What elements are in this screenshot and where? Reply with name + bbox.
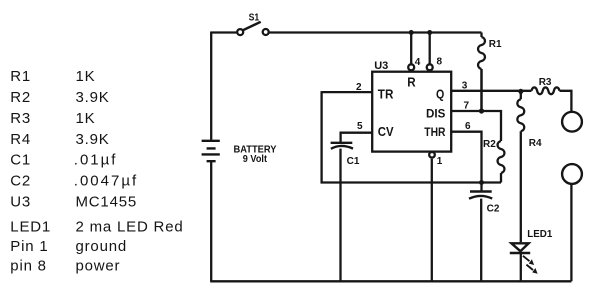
svg-text:LED1: LED1: [10, 219, 51, 236]
svg-text:MC1455: MC1455: [76, 194, 138, 211]
svg-text:3.9K: 3.9K: [76, 89, 110, 106]
wire pin8 to rail: [429, 33, 431, 65]
switch S1 arm: [242, 22, 261, 31]
wire DIS pin 7 to R2: [451, 111, 501, 141]
svg-text:S1: S1: [249, 12, 260, 23]
svg-text:3.9K: 3.9K: [76, 131, 110, 148]
svg-text:pin 8: pin 8: [10, 258, 47, 275]
svg-text:TR: TR: [378, 88, 394, 102]
svg-text:R2: R2: [10, 89, 31, 106]
svg-text:R3: R3: [10, 110, 31, 127]
LED1 cathode bar: [510, 252, 530, 255]
svg-text:R4: R4: [10, 131, 31, 148]
svg-text:CV: CV: [378, 125, 394, 139]
wire C1 to ground rail: [339, 149, 341, 282]
wire pin 1 to ground rail: [431, 159, 433, 281]
LED1 triangle: [511, 243, 528, 251]
wire C2 to ground rail: [480, 199, 482, 282]
svg-text:1: 1: [437, 156, 443, 167]
svg-text:C2: C2: [487, 203, 500, 214]
capacitor C2 top plate: [470, 190, 492, 192]
wire top rail left segment: [211, 31, 237, 33]
svg-text:LED1: LED1: [527, 228, 552, 240]
svg-text:9 Volt: 9 Volt: [243, 154, 268, 165]
svg-text:1K: 1K: [76, 110, 96, 127]
battery B1 plates: [202, 141, 220, 161]
svg-text:Q: Q: [436, 88, 445, 102]
wire electrode 2 to ground rail: [570, 184, 572, 281]
electrode tip circle 2: [562, 164, 582, 184]
junction node R1/DIS pin7: [479, 108, 484, 113]
junction node THR/C2/feedback: [479, 180, 484, 185]
LED1 light arrow 1 shaft: [523, 256, 530, 261]
pin 8 circle: [427, 64, 433, 70]
wire left vertical battery top: [210, 32, 212, 140]
svg-text:2 ma LED Red: 2 ma LED Red: [76, 219, 184, 236]
svg-text:4: 4: [415, 57, 421, 68]
wire CV pin 5: [341, 133, 373, 142]
resistor R2: [498, 141, 505, 183]
svg-text:.01µf: .01µf: [74, 152, 118, 169]
svg-text:C1: C1: [10, 152, 31, 169]
svg-text:U3: U3: [10, 194, 31, 211]
svg-text:R: R: [407, 76, 415, 90]
wire feedback vertical and horizontal to R2: [322, 91, 501, 182]
capacitor C2 curved plate: [469, 196, 492, 199]
wire R1 lower segment crossing Q wire: [480, 69, 482, 110]
svg-text:C1: C1: [347, 156, 360, 167]
wire top rail right segment: [269, 31, 482, 33]
svg-text:5: 5: [357, 121, 363, 132]
capacitor C1 curved plate: [331, 146, 353, 149]
LED1 arrowhead 1: [529, 259, 534, 265]
wire C2 junction to plate: [480, 183, 482, 192]
wire THR pin 6: [451, 132, 481, 183]
LED1 light arrow 2 shaft: [526, 265, 533, 270]
switch S1 left contact: [237, 29, 243, 35]
electrode tip circle 1: [562, 112, 582, 132]
wire pin4 to rail: [410, 33, 412, 65]
svg-text:1K: 1K: [76, 68, 96, 85]
svg-text:6: 6: [465, 121, 471, 132]
svg-text:THR: THR: [424, 125, 445, 139]
svg-text:.0047µf: .0047µf: [74, 173, 138, 190]
svg-text:U3: U3: [374, 60, 388, 72]
svg-text:R4: R4: [529, 138, 542, 149]
svg-text:3: 3: [462, 80, 468, 91]
wire bottom ground rail: [210, 280, 571, 282]
junction node pin4/rail: [409, 30, 414, 35]
LED1 arrowhead 2: [532, 268, 537, 274]
svg-text:C2: C2: [10, 173, 31, 190]
svg-text:R2: R2: [483, 139, 496, 150]
svg-text:R1: R1: [10, 68, 31, 85]
capacitor C1 top plate: [331, 142, 353, 144]
op-amp U3 IC body: [372, 72, 451, 152]
svg-text:7: 7: [464, 100, 470, 111]
pin 1 circle: [429, 152, 435, 158]
switch S1 right contact: [263, 29, 269, 35]
svg-text:DIS: DIS: [426, 106, 445, 120]
svg-text:power: power: [76, 258, 121, 275]
svg-text:R1: R1: [489, 39, 502, 50]
resistor R4: [517, 91, 524, 243]
svg-text:2: 2: [356, 82, 362, 93]
resistor R3: [532, 87, 572, 111]
svg-text:R3: R3: [539, 77, 552, 88]
pin 4 circle: [408, 64, 414, 70]
junction node R4/Q wire: [518, 89, 523, 94]
junction node pin8/rail: [427, 30, 432, 35]
wire battery bottom to ground rail: [210, 162, 212, 281]
svg-text:Pin 1: Pin 1: [10, 238, 48, 255]
wire TR pin 2: [322, 91, 373, 93]
svg-text:8: 8: [437, 56, 443, 67]
wire Q pin 3 output: [451, 90, 531, 92]
svg-text:ground: ground: [76, 238, 128, 255]
resistor R1: [478, 33, 485, 111]
wire LED1 to ground rail: [520, 253, 522, 281]
